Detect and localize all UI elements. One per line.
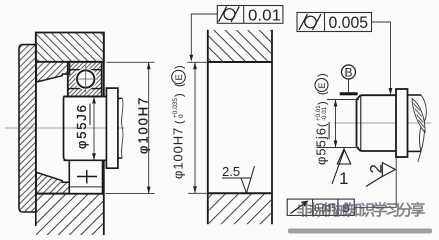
svg-text:-0.01: -0.01 (321, 106, 328, 121)
block edges (207, 30, 209, 224)
datum target 1 (332, 149, 351, 188)
leader (372, 22, 391, 92)
FCF cylindricity 0.01 (189, 6, 283, 62)
top hatch band (209, 30, 271, 62)
shaft bottom line (64, 159, 107, 161)
datum B (340, 65, 358, 95)
housing bottom block (36, 194, 104, 235)
svg-text:E: E (174, 74, 185, 80)
shaft stub bottom line (118, 157, 122, 159)
svg-text:(: ( (317, 123, 329, 127)
flange (396, 89, 408, 157)
svg-text:1: 1 (339, 169, 348, 188)
svg-text:φ100H7: φ100H7 (136, 96, 151, 154)
shaft stub top line (118, 97, 122, 99)
svg-text:0.01: 0.01 (248, 8, 281, 25)
dim phi55J6 (74, 97, 96, 161)
cross mark (77, 176, 97, 178)
svg-text:φ100H7: φ100H7 (171, 127, 186, 179)
datum target 2 (366, 163, 395, 187)
shaft top line (64, 96, 107, 98)
leader (191, 14, 217, 59)
svg-text:0: 0 (178, 114, 185, 118)
dim phi55j6 (317, 100, 360, 148)
dim line (194, 62, 196, 193)
ball (75, 68, 97, 90)
spacer disc (106, 88, 118, 168)
bearing (68, 62, 102, 97)
FCF runout 0.015 B (287, 158, 396, 216)
cap right edge (35, 33, 37, 227)
dim text phi55j6(+0.01/-0.01)(E) rotated (314, 73, 330, 165)
shaft left end (64, 97, 68, 161)
roughness 2.5 (222, 164, 255, 193)
svg-text:2.5: 2.5 (222, 164, 240, 179)
svg-text:2: 2 (367, 164, 386, 173)
svg-text:): ) (317, 73, 329, 77)
svg-text:φ55j6: φ55j6 (314, 127, 329, 165)
centerline (334, 122, 431, 124)
bore bottom line (208, 192, 272, 194)
svg-text:): ) (174, 65, 186, 69)
svg-text:B: B (345, 66, 353, 80)
plus block (69, 160, 102, 193)
dim phi100H7 (left view) (105, 62, 155, 193)
leader (354, 158, 396, 208)
cover bottom lip (36, 172, 70, 193)
svg-text:(: ( (174, 120, 186, 124)
housing wall lower segment (103, 160, 105, 235)
svg-text:): ) (317, 101, 329, 105)
dim text phi100H7(+0.035/0)(E) rotated (171, 65, 186, 179)
FCF cylindricity 0.005 (297, 13, 392, 96)
centerline (5, 127, 125, 129)
svg-text:φ55J6: φ55J6 (74, 103, 89, 149)
svg-text:E: E (317, 82, 327, 88)
after-flange stub + break (408, 94, 422, 96)
bore top line (208, 61, 272, 63)
watermark (288, 201, 432, 234)
svg-text:非标机械知识学习分享: 非标机械知识学习分享 (297, 201, 425, 219)
svg-text:): ) (174, 93, 186, 97)
break wavy line (121, 98, 123, 158)
bottom seat line (70, 186, 102, 188)
bottom hatch band (209, 193, 271, 224)
cover top lip (36, 62, 70, 82)
svg-text:0.005: 0.005 (329, 14, 369, 32)
end cap body (19, 45, 36, 212)
housing wall upper segment (103, 33, 105, 97)
extension lines (188, 61, 208, 63)
journal (357, 95, 397, 151)
housing top block (36, 33, 104, 62)
